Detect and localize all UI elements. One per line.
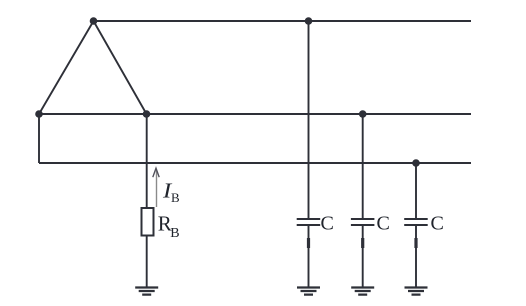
svg-text:C: C <box>431 213 444 235</box>
svg-text:C: C <box>321 213 334 235</box>
svg-text:B: B <box>171 190 180 205</box>
svg-text:B: B <box>170 226 179 241</box>
svg-text:C: C <box>377 213 390 235</box>
